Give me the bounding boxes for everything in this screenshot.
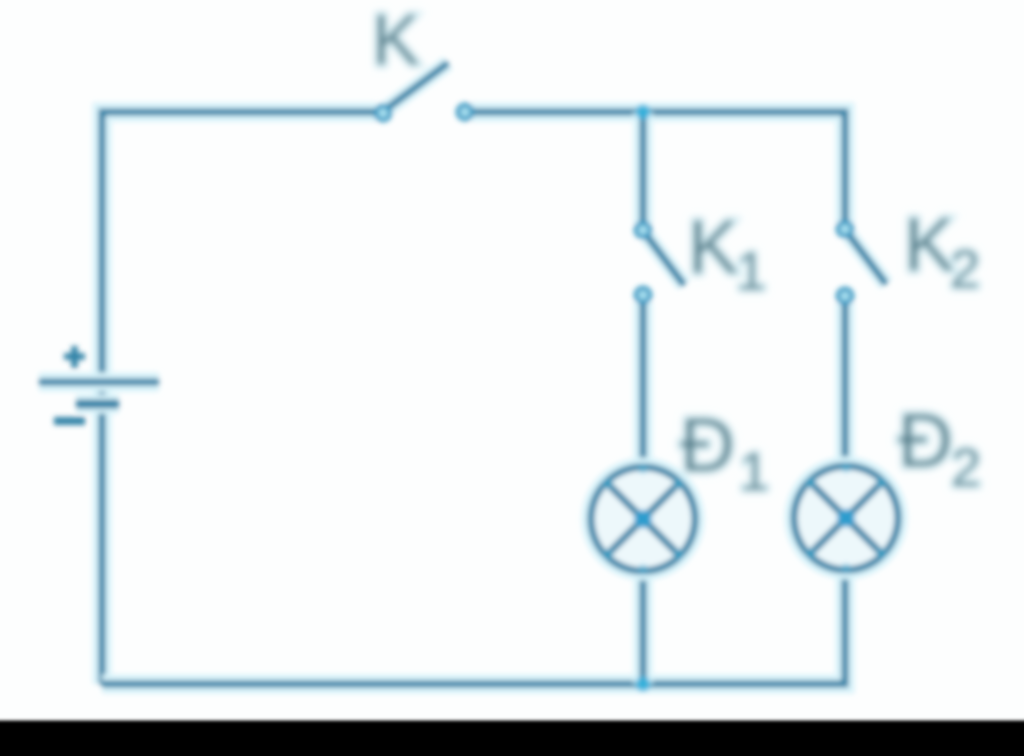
lamp D2 (circle with X) [794, 463, 898, 574]
switch K1 (lever and contacts) [636, 223, 684, 302]
battery minus terminal sign [54, 417, 85, 425]
wire: switch K1 to lamp D1 [634, 302, 653, 468]
wire: top junction node down to switch K1 [634, 112, 653, 224]
node B: bottom junction dot [636, 677, 651, 692]
svg-text:K: K [372, 1, 420, 81]
wire: lamp D1 to bottom wire [634, 570, 653, 684]
svg-text:Đ: Đ [680, 403, 735, 488]
label K1 [688, 205, 766, 302]
svg-text:2: 2 [951, 438, 981, 498]
label D1 [680, 403, 769, 502]
node A: top junction dot [636, 105, 651, 120]
svg-text:1: 1 [739, 442, 769, 502]
wire: switch K to top-right corner down to switch K2 [471, 112, 845, 223]
battery (cell, long positive plate and short negative plate) [39, 382, 159, 404]
battery plus terminal sign [64, 346, 85, 368]
switch K2 (lever and contacts) [838, 222, 886, 303]
wire: bottom return from lamp D2 to battery negative [102, 569, 845, 684]
svg-text:K: K [688, 205, 739, 290]
wire: battery positive up left side and top to switch K [102, 112, 377, 684]
svg-text:2: 2 [950, 240, 980, 300]
lamp D1 (circle with X) [591, 464, 695, 575]
svg-text:1: 1 [736, 242, 766, 302]
black bottom bar [0, 721, 1024, 756]
svg-text:Đ: Đ [898, 399, 953, 484]
svg-text:K: K [904, 203, 955, 288]
switch K (lever and contacts) [376, 63, 472, 120]
label K [372, 1, 420, 81]
label K2 [904, 203, 980, 300]
label D2 [898, 399, 981, 499]
wire: switch K2 to lamp D2 [836, 303, 855, 467]
